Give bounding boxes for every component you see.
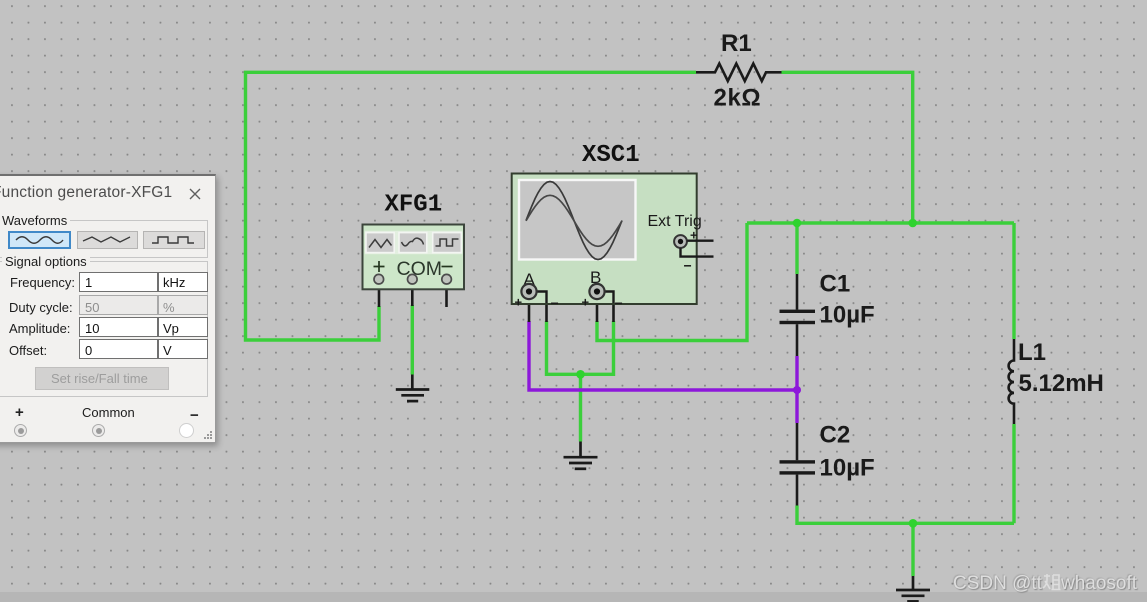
- B terminal: [602, 292, 614, 304]
- resize grip: [203, 430, 213, 440]
- Signal options group: [0, 261, 208, 397]
- set rise/fall button: [35, 367, 169, 390]
- capacitor C1 plates: [780, 310, 816, 313]
- watermark: [953, 572, 1137, 595]
- bottom edge strip: [0, 592, 1147, 602]
- svg-text:COM: COM: [397, 258, 443, 280]
- wire: C1 top branch (green): [795, 223, 798, 274]
- XFG1 pin minus: [445, 283, 448, 307]
- radio -: [179, 423, 194, 438]
- svg-text:+: +: [582, 295, 590, 310]
- svg-text:10µF: 10µF: [820, 302, 875, 329]
- svg-text:C1: C1: [820, 270, 851, 297]
- bottom row: [15, 404, 24, 421]
- XSC1 pin A-: [545, 292, 548, 323]
- XFG1 terminal +: [374, 274, 384, 284]
- ground (scope channel net): [564, 442, 598, 469]
- wire: purple segment C1 bottom to C2 top: [795, 356, 798, 423]
- wire: top rail (green): [747, 221, 1014, 224]
- radio +: [14, 424, 27, 437]
- Ext Trig terminal: [674, 235, 687, 248]
- resistor R1: [696, 64, 782, 81]
- wire: A- to B- U with ground tap (green): [547, 321, 614, 374]
- junction node: top rail / C1: [793, 219, 802, 228]
- svg-text:5.12mH: 5.12mH: [1019, 370, 1104, 397]
- inductor L1: [1009, 339, 1014, 424]
- wire: XFG1 + pin down-left-up to R1 (green): [246, 72, 697, 340]
- svg-text:+: +: [515, 295, 523, 310]
- XFG1 waveform button 2 (sine): [399, 233, 427, 253]
- wire: bottom rail ground tap (green): [911, 523, 914, 576]
- svg-text:XSC1: XSC1: [582, 142, 640, 169]
- wire: scope A+ to C1/C2 midpoint (purple): [529, 321, 797, 390]
- capacitor C2: [796, 423, 799, 460]
- wire: L1 top branch (green): [1012, 223, 1015, 339]
- svg-text:−: −: [684, 258, 692, 274]
- wire: L1 bottom branch (green): [1012, 424, 1015, 523]
- XFG1 waveform button 3 (square): [433, 233, 462, 253]
- XSC1 pin B-: [612, 292, 615, 323]
- svg-text:C2: C2: [820, 421, 851, 448]
- svg-text:L1: L1: [1018, 339, 1046, 366]
- svg-text:−: −: [615, 295, 623, 311]
- XSC1 pin B+: [596, 298, 599, 322]
- XFG1 minus mark: [442, 266, 453, 268]
- junction node: U midpoint / ground: [576, 370, 585, 379]
- XFG1 waveform button 1 (triangle): [366, 233, 394, 253]
- ground (XFG1 COM): [396, 375, 430, 402]
- junction node: purple net at C1-C2 midpoint: [793, 386, 801, 394]
- capacitor C1: [796, 274, 799, 310]
- capacitor C2 plates: [780, 460, 816, 463]
- Ext Trig stub wires: [681, 241, 714, 257]
- oscilloscope XSC1 body: [512, 174, 714, 312]
- Waveforms group: [0, 220, 208, 258]
- wire: XFG1 COM down to ground (green): [411, 305, 414, 375]
- junction node: bottom rail / ground: [909, 519, 918, 528]
- XFG1 pin COM: [411, 283, 414, 306]
- XFG1 plus mark: [374, 261, 385, 272]
- XFG1 terminal COM: [408, 274, 418, 284]
- function generator dialog: [0, 174, 216, 443]
- radio common: [92, 424, 105, 437]
- function generator XFG1 body: [363, 225, 465, 290]
- wire: top rail corner down to B+ (green): [597, 223, 747, 341]
- XFG1 pin +: [378, 283, 381, 307]
- svg-text:R1: R1: [721, 30, 752, 57]
- wire: C2 bottom to bottom rail (green): [797, 506, 1014, 524]
- junction node: top rail / R1 drop: [908, 219, 917, 228]
- wire: U midpoint down to ground (green): [579, 374, 582, 441]
- XSC1 pin A+: [528, 298, 531, 322]
- XFG1 terminal -: [442, 274, 452, 284]
- A terminal: [534, 292, 547, 304]
- svg-text:XFG1: XFG1: [385, 192, 443, 219]
- scope trace big: [526, 182, 622, 260]
- scope trace small: [526, 195, 622, 246]
- ground (bottom rail): [896, 576, 930, 601]
- svg-text:−: −: [551, 295, 559, 311]
- svg-text:2kΩ: 2kΩ: [714, 85, 762, 112]
- svg-text:10µF: 10µF: [820, 454, 875, 481]
- wire: R1 right lead to top rail corner (green): [782, 72, 913, 223]
